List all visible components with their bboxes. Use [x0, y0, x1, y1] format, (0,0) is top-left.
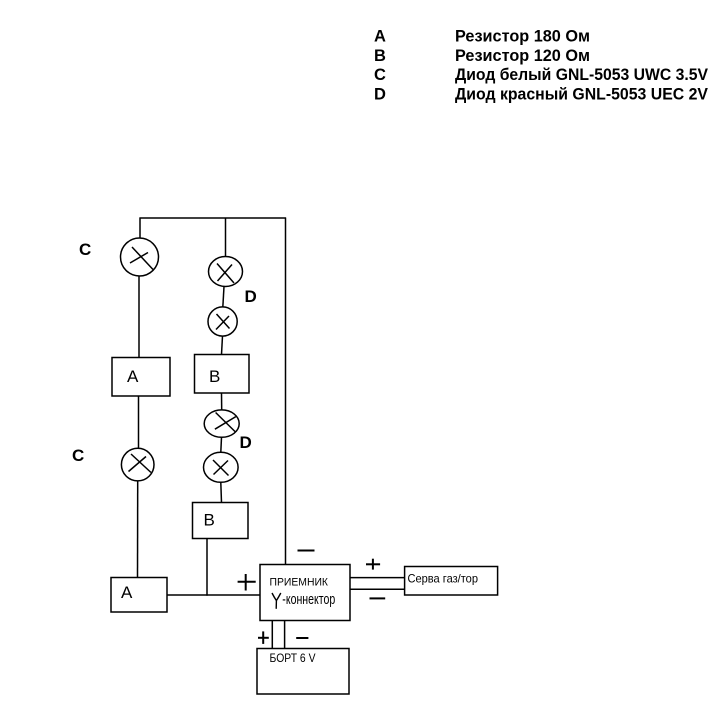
wire right branch drop to receiver: [285, 218, 287, 565]
svg-text:C: C: [79, 240, 91, 259]
minus sign at battery: [296, 637, 308, 639]
resistor A1 box: [112, 358, 170, 397]
svg-text:B: B: [204, 511, 215, 530]
wire receiver to servo (lower): [350, 588, 405, 590]
minus sign right of receiver (servo -): [370, 597, 386, 599]
receiver U1 box (ПРИЕМНИК Y-коннектор): [260, 565, 350, 621]
svg-text:Диод белый GNL-5053 UWC 3.5V: Диод белый GNL-5053 UWC 3.5V: [455, 66, 708, 84]
LED lamp D4 (red diode): [204, 452, 239, 482]
wire receiver to battery (+): [271, 621, 273, 649]
wire A2 to receiver: [167, 594, 261, 596]
svg-text:ПРИЕМНИК: ПРИЕМНИК: [270, 577, 329, 589]
legend row A: Резистор 180 Ом: [374, 28, 590, 46]
battery box (БОРТ 6 V): [257, 649, 349, 695]
legend row C: Диод белый GNL-5053 UWC 3.5V: [374, 66, 708, 84]
LED lamp D2 (red diode): [208, 307, 237, 336]
wire C1 to resistor A1: [138, 276, 140, 358]
wire B1 to D3: [221, 393, 223, 410]
legend row B: Резистор 120 Ом: [374, 47, 590, 65]
wire left branch drop to C lamp: [139, 218, 141, 239]
wire D3 to D4: [220, 437, 223, 452]
minus sign above receiver: [298, 550, 315, 552]
svg-text:БОРТ 6 V: БОРТ 6 V: [270, 651, 316, 665]
LED lamp C1 (white diode): [121, 238, 159, 276]
wire D4 to resistor B2: [220, 482, 223, 502]
wire D2 to resistor B1: [222, 336, 223, 355]
svg-text:D: D: [240, 433, 252, 452]
svg-text:Серва газ/тор: Серва газ/тор: [408, 572, 479, 586]
svg-text:-коннектор: -коннектор: [282, 592, 335, 608]
svg-text:A: A: [121, 583, 133, 602]
svg-text:Резистор 180 Ом: Резистор 180 Ом: [455, 28, 590, 46]
svg-text:A: A: [374, 28, 386, 46]
resistor A2 box: [111, 578, 167, 613]
svg-text:C: C: [72, 446, 84, 465]
plus sign left of receiver: [238, 574, 256, 591]
legend row D: Диод красный GNL-5053 UEC 2V: [374, 85, 708, 103]
LED lamp D1 (red diode): [209, 257, 243, 287]
svg-text:D: D: [374, 85, 386, 103]
svg-text:B: B: [209, 367, 220, 386]
servo box (Серва газ/тор): [405, 567, 498, 596]
svg-text:A: A: [127, 367, 139, 386]
plus sign right of receiver (servo +): [366, 559, 380, 570]
svg-text:Резистор 120 Ом: Резистор 120 Ом: [455, 47, 590, 65]
receiver label line 2 Y-symbol glyph: [272, 593, 281, 609]
LED lamp C2 (white diode): [121, 448, 154, 481]
wire C2 to resistor A2: [137, 481, 139, 578]
resistor B1 box: [195, 355, 250, 394]
wire B2 down to receiver feed: [206, 539, 208, 596]
LED lamp D3 (red diode): [204, 410, 239, 437]
svg-text:D: D: [245, 287, 257, 306]
resistor B2 box: [193, 503, 249, 539]
wire receiver to servo (upper): [350, 577, 405, 579]
plus sign at battery: [258, 631, 269, 644]
svg-text:C: C: [374, 66, 386, 84]
wire top rail: [140, 217, 287, 219]
wire D1 to D2: [223, 287, 224, 308]
wire middle branch drop to D lamp: [225, 218, 227, 257]
wire A1 to C2 lamp: [138, 396, 140, 449]
svg-text:Диод красный GNL-5053 UEC 2V: Диод красный GNL-5053 UEC 2V: [455, 85, 708, 103]
wire receiver to battery (-): [284, 621, 286, 649]
svg-text:B: B: [374, 47, 386, 65]
